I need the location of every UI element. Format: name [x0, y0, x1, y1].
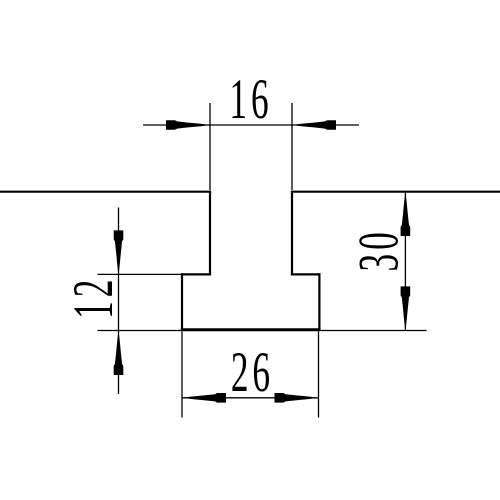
svg-text:30: 30: [348, 228, 411, 271]
svg-text:26: 26: [231, 342, 274, 405]
svg-text:12: 12: [63, 276, 126, 319]
svg-text:16: 16: [229, 69, 272, 132]
